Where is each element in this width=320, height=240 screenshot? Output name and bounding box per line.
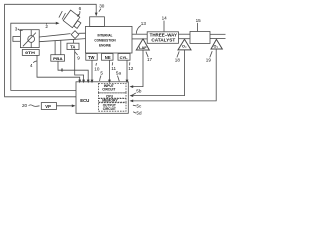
- wire CYL sensor to ECU: [126, 60, 128, 81]
- injector collar: [74, 21, 81, 29]
- svg-text:ENGINE: ENGINE: [99, 44, 111, 48]
- svg-text:4: 4: [30, 63, 33, 68]
- injector connector pin 1: [59, 11, 62, 18]
- svg-text:17: 17: [147, 57, 153, 62]
- svg-text:PBA: PBA: [53, 56, 63, 61]
- svg-text:COMBUSTION: COMBUSTION: [94, 39, 116, 43]
- svg-text:20: 20: [22, 103, 28, 108]
- PBA sensor stub: [54, 41, 56, 55]
- svg-text:CIRCUIT: CIRCUIT: [103, 107, 117, 111]
- svg-text:3: 3: [15, 27, 18, 32]
- wire outer loop arrowhead: [95, 13, 98, 17]
- intake pipe upper wall throttle to engine (gap at injector tip): [39, 34, 70, 37]
- wire thTH sensor to ECU: [37, 55, 80, 80]
- svg-text:CYL: CYL: [120, 55, 129, 60]
- svg-text:TW: TW: [88, 55, 95, 60]
- input circuit box: [98, 83, 126, 93]
- wire outer loop ECU output to box 30: [5, 4, 97, 97]
- svg-text:CIRCUIT: CIRCUIT: [102, 88, 116, 92]
- exhaust pipe catalyst to box15 upper: [179, 33, 191, 35]
- wire PBA sensor to ECU: [58, 61, 88, 81]
- svg-text:CATALYST: CATALYST: [151, 37, 175, 42]
- svg-text:6: 6: [79, 6, 82, 11]
- memory box: [98, 99, 126, 103]
- throttle valve circle: [28, 36, 35, 43]
- svg-text:2: 2: [45, 24, 48, 29]
- TW sensor box: [86, 54, 97, 61]
- exhaust pipe engine to catalyst lower: [132, 38, 147, 40]
- label 20 leader: [29, 105, 40, 106]
- wire NE sensor to ECU: [109, 60, 111, 81]
- wire VP to ECU: [57, 105, 74, 107]
- CYL sensor box: [118, 54, 130, 61]
- label 30 leader: [99, 9, 101, 12]
- svg-text:5: 5: [100, 71, 103, 76]
- svg-text:10: 10: [94, 66, 100, 71]
- svg-text:INTERNAL: INTERNAL: [98, 33, 113, 37]
- exhaust pipe catalyst to box15 lower: [179, 38, 191, 40]
- injector nozzle tip: [71, 31, 79, 39]
- svg-text:12: 12: [128, 66, 134, 71]
- NE sensor box: [102, 54, 114, 61]
- intake pipe lower wall (inlet): [13, 40, 21, 42]
- O2 sensor 18 triangle: [178, 39, 191, 50]
- throttle valve plate: [23, 33, 36, 47]
- wire TA sensor to ECU: [75, 50, 84, 81]
- ECU box: [76, 82, 128, 114]
- svg-text:MEMORY: MEMORY: [102, 99, 118, 103]
- svg-text:30: 30: [99, 3, 105, 8]
- svg-text:NE: NE: [105, 55, 111, 60]
- box 15: [190, 32, 210, 44]
- svg-text:5a: 5a: [116, 71, 122, 76]
- intake pipe upper wall (inlet): [13, 36, 21, 38]
- fuel injector body: [63, 10, 80, 28]
- svg-text:TA: TA: [70, 44, 75, 49]
- wire inner loop arrowhead: [56, 22, 60, 25]
- svg-text:5d: 5d: [136, 110, 142, 115]
- intake pipe lower wall throttle to engine: [39, 39, 85, 42]
- label 6 leader arrow: [78, 11, 80, 16]
- exhaust pipe after box15 lower: [210, 38, 226, 40]
- three-way catalyst box: [147, 32, 178, 44]
- svg-text:ECU: ECU: [80, 98, 89, 103]
- exhaust pipe engine to catalyst upper: [132, 33, 147, 35]
- svg-text:LAF: LAF: [139, 46, 147, 50]
- internal combustion engine box: [86, 26, 133, 53]
- LAF sensor triangle: [136, 39, 149, 50]
- TA sensor stub: [73, 39, 75, 43]
- intake pipe inlet end cap: [12, 36, 14, 42]
- throttle sensor box thTH: [22, 50, 39, 56]
- box 30 on engine top: [90, 17, 105, 27]
- svg-text:15: 15: [196, 18, 202, 23]
- svg-text:O₂: O₂: [182, 45, 187, 49]
- svg-text:O₂: O₂: [214, 45, 219, 49]
- svg-text:18: 18: [175, 58, 181, 63]
- TA sensor box: [67, 43, 79, 49]
- svg-text:9: 9: [77, 56, 80, 61]
- exhaust pipe after box15 upper: [210, 33, 226, 35]
- svg-text:13: 13: [141, 21, 147, 26]
- CPU box: [98, 93, 126, 98]
- svg-text:19: 19: [206, 58, 212, 63]
- wire O2-18 to ECU: [132, 50, 185, 96]
- svg-text:8: 8: [61, 68, 64, 73]
- wire LAF sensor to ECU: [132, 50, 144, 87]
- svg-text:VP: VP: [45, 104, 51, 109]
- PBA sensor box: [51, 55, 65, 62]
- svg-text:θTH: θTH: [25, 50, 35, 55]
- label 3 leader: [18, 29, 23, 31]
- wire O2-19 to ECU: [132, 49, 217, 101]
- VP sensor box: [41, 103, 56, 110]
- O2 sensor 19 triangle: [211, 39, 222, 49]
- svg-text:14: 14: [162, 16, 168, 21]
- output circuit box: [98, 103, 126, 112]
- svg-text:5b: 5b: [136, 88, 142, 93]
- injector connector pin 2: [62, 13, 65, 20]
- wire TW sensor to ECU: [91, 60, 93, 81]
- svg-text:5c: 5c: [136, 103, 142, 108]
- throttle body box: [20, 30, 39, 48]
- wire inner loop ECU to injector: [11, 23, 76, 90]
